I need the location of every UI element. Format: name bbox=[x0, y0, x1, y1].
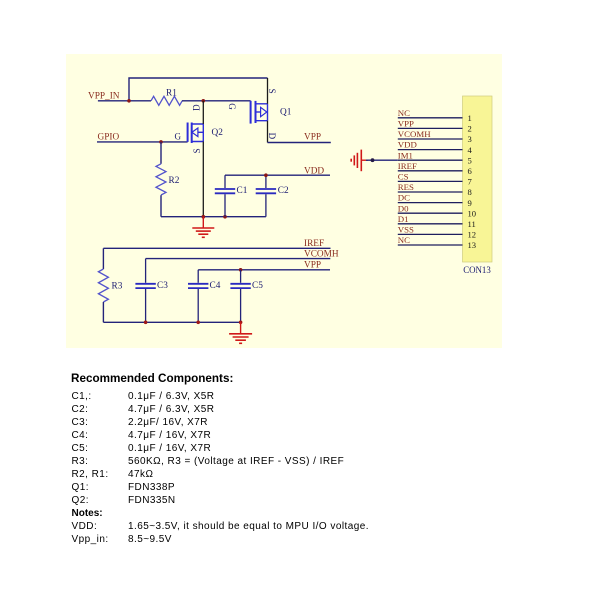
svg-text:NC: NC bbox=[398, 235, 410, 245]
svg-text:Q2: Q2 bbox=[212, 128, 224, 138]
wire VCOMH rail bbox=[146, 258, 331, 260]
svg-text:GPIO: GPIO bbox=[98, 132, 120, 142]
wire VPP bbox=[268, 142, 331, 144]
svg-text:C3: C3 bbox=[157, 281, 168, 291]
junction lower rail / C3 bbox=[144, 321, 148, 325]
svg-text:CS: CS bbox=[398, 172, 409, 182]
pin 1 NC bbox=[398, 108, 472, 123]
wire IM1 to ground bbox=[366, 159, 398, 161]
svg-text:VCOMH: VCOMH bbox=[304, 250, 339, 260]
svg-text:D: D bbox=[192, 104, 202, 111]
pin 9 DC bbox=[398, 193, 472, 208]
schematic sheet background bbox=[66, 54, 502, 348]
svg-text:C1: C1 bbox=[237, 186, 248, 196]
svg-text:DC: DC bbox=[398, 193, 410, 203]
wire IREF rail bbox=[103, 247, 330, 249]
svg-text:S: S bbox=[192, 148, 202, 153]
svg-text:12: 12 bbox=[468, 230, 477, 240]
junction R2 top bbox=[159, 140, 163, 144]
wire R1 to Q1 gate bbox=[182, 100, 251, 102]
wire Q1 drain lead bbox=[267, 121, 269, 143]
pin 11 D1 bbox=[398, 214, 476, 229]
capacitor C3 bbox=[135, 259, 155, 323]
capacitor C2 bbox=[256, 175, 276, 217]
svg-text:VPP_IN: VPP_IN bbox=[88, 92, 120, 102]
svg-text:Q1: Q1 bbox=[280, 108, 292, 118]
svg-text:13: 13 bbox=[468, 240, 477, 250]
pin 6 IREF bbox=[398, 161, 473, 176]
capacitor C4 bbox=[188, 270, 208, 323]
resistor R1 bbox=[151, 96, 182, 105]
wire R3 bottom lead bbox=[102, 302, 104, 322]
pin 10 D0 bbox=[398, 203, 476, 218]
ground GND3 on IM1 (rotated) bbox=[351, 150, 368, 172]
svg-text:G: G bbox=[227, 103, 237, 110]
svg-text:8: 8 bbox=[468, 187, 472, 197]
transistor Q2 bbox=[188, 123, 204, 144]
svg-text:IREF: IREF bbox=[304, 239, 324, 249]
svg-text:VDD: VDD bbox=[398, 140, 417, 150]
svg-text:3: 3 bbox=[468, 134, 472, 144]
svg-text:C4: C4 bbox=[210, 281, 221, 291]
svg-text:4: 4 bbox=[468, 145, 473, 155]
capacitor C5 bbox=[230, 270, 250, 323]
wire Q1 source lead bbox=[267, 78, 269, 104]
junction lower rail / C5 bbox=[239, 321, 243, 325]
junction Q2 drain node bbox=[202, 99, 206, 103]
svg-text:D0: D0 bbox=[398, 203, 409, 213]
wire R2 top lead bbox=[160, 142, 162, 164]
svg-text:1: 1 bbox=[468, 113, 472, 123]
svg-text:IREF: IREF bbox=[398, 161, 417, 171]
svg-text:G: G bbox=[175, 131, 182, 141]
wire GPIO to Q2 gate bbox=[97, 141, 188, 143]
pin 3 VCOMH bbox=[398, 129, 472, 144]
wire VDD rail bbox=[225, 174, 330, 176]
svg-text:2: 2 bbox=[468, 124, 472, 134]
svg-text:VCOMH: VCOMH bbox=[398, 129, 431, 139]
svg-text:VPP: VPP bbox=[304, 261, 321, 271]
wire top rail bbox=[129, 78, 268, 101]
pin 13 NC bbox=[398, 235, 476, 250]
capacitor C1 bbox=[215, 175, 235, 217]
svg-text:R3: R3 bbox=[112, 282, 123, 292]
svg-text:R1: R1 bbox=[166, 88, 177, 98]
junction VDD rail / C2 bbox=[264, 173, 268, 177]
junction IM1 ground wire bbox=[371, 158, 375, 162]
ground GND2 bbox=[229, 322, 252, 343]
svg-text:6: 6 bbox=[468, 166, 473, 176]
svg-text:VPP: VPP bbox=[304, 133, 321, 143]
wire R3 top lead bbox=[102, 248, 104, 269]
wire upper ground rail bbox=[161, 216, 266, 218]
svg-text:VPP: VPP bbox=[398, 119, 414, 129]
junction VPP_IN / top rail bbox=[127, 99, 131, 103]
svg-text:D1: D1 bbox=[398, 214, 409, 224]
svg-text:7: 7 bbox=[468, 177, 473, 187]
transistor Q1 bbox=[251, 101, 268, 124]
pin 4 VDD bbox=[398, 140, 473, 155]
svg-text:S: S bbox=[267, 89, 277, 94]
wire R2 bottom lead bbox=[160, 195, 162, 217]
svg-text:VSS: VSS bbox=[398, 225, 414, 235]
wire Q2 source lead bbox=[202, 142, 204, 217]
wire Q2 drain lead bbox=[202, 101, 204, 124]
svg-text:5: 5 bbox=[468, 155, 472, 165]
pin 8 RES bbox=[398, 182, 472, 197]
svg-text:9: 9 bbox=[468, 198, 472, 208]
pin 5 IM1 bbox=[398, 150, 472, 165]
svg-text:NC: NC bbox=[398, 108, 410, 118]
ground GND1 bbox=[192, 217, 214, 238]
pin 7 CS bbox=[398, 172, 473, 187]
resistor R2 bbox=[156, 164, 166, 195]
wire VPP_IN to R1 bbox=[98, 100, 151, 102]
svg-text:VDD: VDD bbox=[304, 166, 324, 176]
svg-text:R2: R2 bbox=[169, 176, 180, 186]
svg-text:CON13: CON13 bbox=[463, 265, 491, 275]
junction lower rail / C4 bbox=[196, 321, 200, 325]
svg-text:C2: C2 bbox=[278, 186, 289, 196]
svg-text:11: 11 bbox=[468, 219, 476, 229]
svg-text:RES: RES bbox=[398, 182, 414, 192]
wire lower ground rail bbox=[103, 321, 240, 323]
svg-text:D: D bbox=[267, 133, 277, 140]
junction ground rail / Q2 source bbox=[202, 215, 206, 219]
svg-text:C5: C5 bbox=[252, 281, 263, 291]
connector CON13 body bbox=[463, 96, 493, 262]
wire lower VPP rail bbox=[198, 269, 330, 271]
junction ground rail / C1 bbox=[223, 215, 227, 219]
pin 2 VPP bbox=[398, 119, 472, 134]
components notes text block bbox=[71, 372, 233, 385]
pin 12 VSS bbox=[398, 225, 476, 240]
resistor R3 bbox=[98, 269, 108, 302]
svg-text:IM1: IM1 bbox=[398, 150, 413, 160]
svg-text:10: 10 bbox=[468, 208, 477, 218]
junction lower VPP rail / C5 bbox=[239, 268, 243, 272]
